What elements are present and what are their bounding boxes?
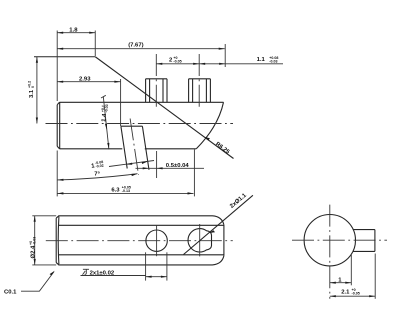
svg-text:2.1: 2.1 — [341, 290, 350, 296]
svg-text:1.8: 1.8 — [69, 27, 78, 33]
svg-text:0.5±0.04: 0.5±0.04 — [166, 163, 190, 169]
svg-text:-0.05: -0.05 — [173, 59, 181, 63]
svg-text:7°: 7° — [94, 171, 100, 177]
svg-text:0: 0 — [31, 86, 35, 88]
svg-text:-0.05: -0.05 — [352, 292, 360, 296]
svg-text:-0.03: -0.03 — [32, 237, 36, 245]
svg-text:-0.13: -0.13 — [122, 189, 130, 193]
svg-text:3.1: 3.1 — [29, 89, 35, 98]
svg-text:-0.03: -0.03 — [269, 59, 277, 63]
svg-text:1.4: 1.4 — [101, 113, 108, 122]
svg-text:(7.67): (7.67) — [128, 43, 143, 49]
svg-text:Ø2.4: Ø2.4 — [30, 245, 36, 258]
svg-text:1.1: 1.1 — [257, 57, 266, 63]
svg-text:2x1±0.02: 2x1±0.02 — [90, 270, 115, 276]
svg-text:-0.03: -0.03 — [104, 104, 109, 113]
svg-text:6.3: 6.3 — [111, 188, 120, 194]
svg-text:C0.1: C0.1 — [4, 290, 17, 296]
svg-text:2.93: 2.93 — [79, 76, 91, 82]
